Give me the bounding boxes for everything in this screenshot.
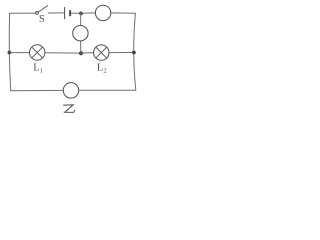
wire top segment 2 (switch to battery) — [48, 12, 63, 14]
wire junction down to middle meter — [80, 13, 82, 25]
meter (top right, unlabeled) — [95, 5, 110, 20]
label L1 — [33, 63, 43, 75]
wire middle segment 3 (junction to lamp L2) — [81, 52, 94, 54]
wire bottom segment 1 (left corner to bottom meter) — [11, 89, 64, 91]
label L2 — [97, 63, 107, 75]
wire top segment 5 (top meter to right corner) — [111, 12, 136, 14]
svg-text:S: S — [39, 14, 45, 25]
battery long plate — [64, 7, 66, 18]
junction node left (middle wire) — [7, 51, 11, 55]
junction node center (middle wire) — [79, 51, 83, 55]
junction node right (middle wire) — [132, 51, 136, 55]
battery short plate — [69, 10, 71, 16]
wire middle segment 2 (L1 to center junction) — [45, 52, 81, 54]
wire right vertical — [134, 13, 136, 90]
junction node below battery — [79, 12, 83, 16]
wire middle segment 4 (L2 to right) — [109, 52, 134, 54]
svg-text:L1: L1 — [33, 63, 43, 75]
meter 乙 (bottom circle) — [63, 83, 79, 99]
wire left vertical — [9, 13, 10, 91]
wire top segment 4 (junction to top meter) — [81, 12, 96, 14]
lamp L1 — [30, 45, 45, 60]
wire middle meter down to middle branch — [80, 41, 82, 53]
svg-text:L2: L2 — [97, 63, 107, 75]
lamp L2 — [94, 45, 109, 60]
label S — [39, 14, 45, 25]
label 乙 (drawn glyph) — [64, 105, 75, 113]
wire top segment 1 (to switch) — [10, 12, 36, 14]
meter (middle, unlabeled) — [73, 26, 88, 41]
wire top segment 3 (battery to junction) — [71, 12, 81, 14]
switch S — [36, 6, 48, 15]
wire bottom segment 2 (bottom meter to right corner) — [79, 89, 136, 91]
wire middle segment 1 (left to lamp L1) — [9, 52, 29, 54]
